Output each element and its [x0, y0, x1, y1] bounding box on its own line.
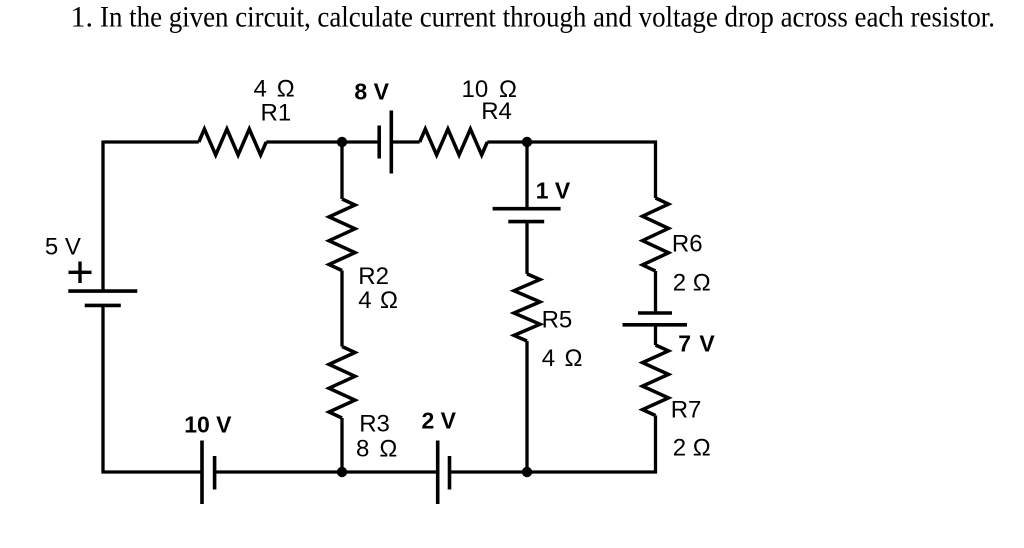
node C (bottom middle junction) — [337, 467, 347, 477]
svg-text:R4: R4 — [481, 98, 512, 125]
wire 10V to 2V battery — [215, 470, 438, 473]
svg-text:Ω: Ω — [379, 435, 397, 462]
resistor R2 — [329, 199, 355, 271]
svg-text:R1: R1 — [261, 100, 292, 127]
svg-text:7 V: 7 V — [678, 331, 716, 357]
svg-text:R2: R2 — [358, 263, 389, 290]
svg-text:5 V: 5 V — [45, 233, 81, 260]
resistor R1 — [199, 129, 266, 155]
svg-text:4: 4 — [254, 76, 267, 103]
svg-text:8 V: 8 V — [354, 79, 389, 105]
wire 1V to R5 — [525, 222, 528, 274]
resistor R3 — [329, 347, 355, 419]
svg-text:4: 4 — [542, 345, 555, 372]
resistor R6 — [643, 198, 669, 271]
wire 8V to R4 — [391, 140, 419, 143]
wire 2V to bottom-right corner — [450, 470, 658, 473]
svg-text:In the given circuit, calculat: In the given circuit, calculate current … — [100, 1, 995, 34]
wire R7 to bottom-right corner — [654, 416, 657, 474]
node D (bottom junction with R5 branch) — [522, 467, 532, 477]
battery 5V — [68, 289, 137, 293]
wire middle branch node A to R2 — [340, 142, 343, 199]
battery 7V — [638, 311, 672, 315]
battery 8V — [377, 126, 381, 159]
wire top-left to R1 — [103, 140, 199, 143]
svg-text:Ω: Ω — [565, 345, 583, 372]
wire R2 to R3 — [340, 271, 343, 347]
svg-text:Ω: Ω — [380, 287, 398, 314]
svg-text:R7: R7 — [671, 396, 702, 423]
svg-text:4: 4 — [358, 287, 371, 314]
wire left branch lower — [101, 305, 104, 473]
svg-text:R3: R3 — [359, 410, 390, 437]
battery 10V — [200, 441, 204, 505]
wire R1 to 8V battery — [266, 140, 379, 143]
battery 1V — [493, 207, 561, 211]
wire left branch upper — [101, 141, 104, 292]
svg-text:10 V: 10 V — [184, 412, 232, 438]
svg-text:1.: 1. — [71, 1, 94, 34]
svg-text:Ω: Ω — [277, 76, 295, 103]
wire bottom-left to 10V battery — [102, 470, 203, 473]
wire R6 to 7V battery — [654, 271, 657, 313]
svg-text:8: 8 — [356, 435, 369, 462]
svg-text:1 V: 1 V — [536, 178, 571, 204]
plus sign — [69, 271, 92, 274]
wire top-right corner to R6 — [654, 141, 657, 199]
resistor R7 — [643, 345, 669, 416]
wire R3 to node C — [340, 418, 343, 472]
wire node B to 1V battery — [525, 142, 528, 209]
wire 7V to R7 — [654, 325, 657, 345]
svg-text:2 Ω: 2 Ω — [673, 435, 711, 462]
svg-text:2 V: 2 V — [422, 407, 457, 433]
wire R5 to node D — [525, 341, 528, 472]
battery 2V — [436, 441, 440, 505]
resistor R5 — [514, 274, 540, 341]
resistor R4 — [420, 129, 488, 155]
node A (top middle junction) — [337, 137, 347, 147]
wire R4 to top-right corner — [487, 140, 657, 143]
svg-text:2 Ω: 2 Ω — [673, 270, 711, 297]
svg-text:R5: R5 — [542, 307, 573, 334]
svg-text:R6: R6 — [672, 231, 703, 258]
node B (top junction with R5 branch) — [522, 137, 532, 147]
